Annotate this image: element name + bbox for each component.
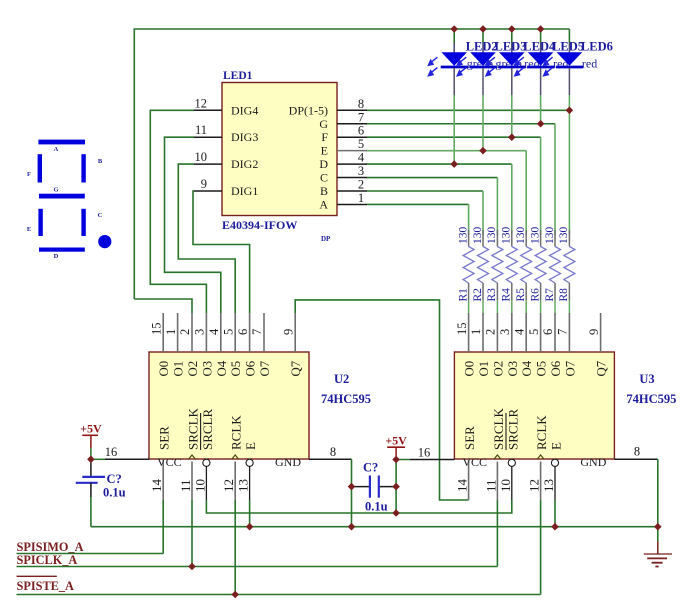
resistor R8 130	[558, 227, 575, 314]
wire: LED2 cathode column	[453, 95, 455, 164]
svg-text:16: 16	[105, 445, 118, 459]
svg-text:LED1: LED1	[223, 70, 253, 82]
wire: LED3 cathode column	[482, 95, 484, 151]
wire: U2 VCC pin 16	[91, 445, 149, 459]
wire: U2 SRCLK drop	[191, 500, 193, 567]
svg-text:B: B	[320, 184, 328, 198]
wire: U3 SRCLK drop	[496, 500, 498, 567]
wire: segment row 8 (DP)	[367, 109, 569, 111]
svg-text:1: 1	[358, 191, 364, 205]
svg-text:DIG2: DIG2	[231, 157, 258, 171]
wire: DIG1 to U2 pin 6	[193, 191, 250, 313]
U2 RCLK pin 12	[221, 415, 244, 500]
svg-text:U2: U2	[334, 372, 349, 386]
LED1 left pins DIG4-DIG1 (pins 12,11,10,9)	[194, 96, 258, 198]
svg-text:74HC595: 74HC595	[626, 392, 676, 406]
wire: bus drop to U2 pin 2	[134, 299, 192, 313]
svg-text:130: 130	[486, 227, 498, 245]
LED LED3	[456, 29, 526, 95]
svg-text:10: 10	[195, 150, 208, 164]
wire: LED anode top bus	[134, 29, 569, 299]
net label SPISTE_A (active low)	[17, 576, 541, 594]
wire: segment row 4 to R4	[367, 164, 512, 235]
U2 top pin stubs Q0-Q7	[149, 313, 303, 377]
svg-text:DIG1: DIG1	[231, 184, 258, 198]
U3 VCC pin 16 / GND pin 8 labels	[462, 455, 606, 469]
svg-text:15: 15	[455, 323, 469, 336]
svg-text:130: 130	[501, 227, 513, 244]
wire: ground bus	[91, 526, 658, 528]
svg-text:5: 5	[358, 137, 364, 151]
svg-text:12: 12	[527, 479, 542, 492]
svg-text:13: 13	[236, 479, 251, 492]
op-chip U3 74HC595	[454, 352, 676, 459]
svg-text:O0: O0	[463, 361, 477, 377]
wire: segment row 6 to R6	[367, 137, 541, 235]
svg-text:SRCLR: SRCLR	[200, 408, 215, 450]
svg-text:O0: O0	[157, 361, 171, 377]
svg-text:9: 9	[587, 329, 601, 335]
svg-text:O6: O6	[244, 360, 258, 376]
wire: DIG2 to U2 pin 5	[178, 164, 235, 313]
svg-text:GND: GND	[580, 455, 606, 469]
capacitor C? 0.1u (U3 decoupling)	[352, 461, 397, 514]
U3 RCLK pin 12	[527, 415, 550, 500]
svg-text:5: 5	[221, 329, 235, 335]
wire: DIG4 to U2 pin 3	[150, 110, 206, 313]
svg-text:O5: O5	[535, 361, 549, 377]
LED LED5	[514, 29, 584, 95]
svg-text:U3: U3	[639, 372, 654, 386]
svg-text:2: 2	[178, 329, 192, 335]
svg-text:130: 130	[558, 227, 570, 245]
svg-text:F: F	[27, 171, 31, 178]
svg-text:130: 130	[544, 227, 556, 245]
svg-text:O5: O5	[229, 361, 243, 377]
svg-text:6: 6	[541, 329, 555, 335]
svg-text:7: 7	[250, 329, 264, 335]
wire: U2 GND pin 8	[309, 445, 352, 527]
power +5V symbol (U2)	[80, 422, 102, 460]
svg-text:E: E	[321, 144, 328, 158]
svg-text:3: 3	[358, 164, 364, 178]
wire: U2 RCLK drop	[234, 500, 236, 595]
wire: LED6 cathode column	[568, 95, 570, 235]
svg-text:LED5: LED5	[552, 40, 584, 54]
svg-text:LED2: LED2	[466, 40, 498, 54]
wire: U3 GND pin 8	[614, 445, 657, 542]
svg-text:O2: O2	[186, 361, 200, 377]
svg-text:9: 9	[201, 177, 207, 191]
svg-text:R1: R1	[457, 288, 469, 302]
svg-text:E: E	[27, 226, 31, 233]
svg-text:O4: O4	[215, 360, 229, 376]
svg-text:SRCLK: SRCLK	[186, 407, 201, 450]
svg-text:O7: O7	[563, 360, 577, 376]
wire: DIG3 to U2 pin 4	[165, 137, 221, 313]
svg-text:DIG3: DIG3	[231, 130, 258, 144]
LED LED2	[427, 29, 497, 95]
svg-text:SER: SER	[462, 426, 477, 450]
svg-text:A: A	[54, 146, 59, 153]
svg-text:+5V: +5V	[80, 422, 102, 436]
svg-text:R7: R7	[544, 288, 556, 302]
U2 SRCLR pin 10 (active low)	[192, 408, 215, 500]
svg-text:GND: GND	[275, 455, 301, 469]
svg-text:E40394-IFOW: E40394-IFOW	[222, 218, 297, 232]
wire: segment row 1 to R1	[367, 204, 469, 235]
svg-text:O2: O2	[491, 361, 505, 377]
svg-text:O1: O1	[477, 361, 491, 377]
svg-text:SRCLK: SRCLK	[491, 407, 506, 450]
svg-text:7: 7	[358, 110, 364, 124]
svg-text:10: 10	[498, 479, 513, 492]
svg-text:R4: R4	[501, 288, 513, 302]
U2 SRCLK pin 11	[178, 407, 201, 500]
svg-text:E: E	[549, 442, 564, 450]
svg-text:O3: O3	[506, 361, 520, 377]
svg-text:SPISTE_A: SPISTE_A	[17, 579, 75, 593]
svg-text:R5: R5	[515, 288, 527, 302]
resistor R5 130	[515, 227, 532, 314]
U3 SRCLK pin 11	[483, 407, 506, 500]
net label SPICLK_A	[17, 553, 498, 567]
svg-text:4: 4	[207, 328, 221, 335]
svg-text:8: 8	[330, 445, 336, 459]
svg-text:F: F	[321, 130, 328, 144]
wire: U2 SER drop	[162, 500, 164, 554]
U3 SRCLR pin 10 (active low)	[498, 408, 521, 500]
svg-text:13: 13	[541, 479, 556, 492]
resistor R6 130	[529, 227, 546, 314]
svg-text:R2: R2	[472, 288, 484, 302]
svg-text:74HC595: 74HC595	[321, 392, 371, 406]
U3 E pin 13 (output enable, active low)	[541, 442, 564, 500]
svg-text:SRCLR: SRCLR	[505, 408, 520, 450]
svg-text:B: B	[98, 158, 103, 165]
svg-text:+5V: +5V	[385, 434, 407, 448]
svg-text:1: 1	[164, 329, 178, 335]
svg-text:A: A	[319, 197, 328, 211]
resistor R2 130	[472, 227, 489, 314]
wire: segment row 5 to R5	[367, 151, 526, 235]
svg-text:8: 8	[358, 97, 364, 111]
svg-text:red: red	[582, 57, 597, 71]
svg-text:D: D	[319, 157, 328, 171]
svg-text:C: C	[98, 212, 103, 219]
LED1 4-digit display component	[222, 70, 337, 243]
svg-text:9: 9	[281, 329, 295, 335]
svg-text:12: 12	[221, 479, 236, 492]
op-chip U2 74HC595	[149, 352, 371, 459]
svg-text:0.1u: 0.1u	[365, 500, 388, 514]
svg-text:12: 12	[195, 96, 208, 110]
svg-text:LED6: LED6	[581, 40, 613, 54]
power +5V symbol (U3)	[385, 434, 407, 460]
svg-text:LED3: LED3	[495, 40, 527, 54]
svg-text:C?: C?	[107, 472, 122, 486]
svg-text:130: 130	[529, 227, 541, 245]
svg-text:SPISIMO_A: SPISIMO_A	[17, 540, 84, 554]
svg-text:Q7: Q7	[289, 360, 303, 376]
wire: U2 E pin13 to ground bus	[249, 500, 251, 527]
svg-text:G: G	[319, 117, 328, 131]
7-segment display indicator symbol	[27, 140, 112, 260]
svg-text:DIG4: DIG4	[231, 103, 258, 117]
svg-text:R3: R3	[486, 288, 498, 302]
svg-text:5: 5	[527, 329, 541, 335]
svg-text:130: 130	[457, 227, 469, 245]
svg-text:C: C	[320, 171, 328, 185]
U2 SER pin 14	[149, 426, 172, 500]
ground symbol	[644, 542, 672, 567]
U3 top pin stubs Q0-Q7	[455, 313, 609, 377]
svg-text:4: 4	[512, 328, 526, 335]
svg-text:G: G	[53, 187, 58, 194]
U2 VCC pin 16 / GND pin 8 labels	[157, 455, 301, 469]
svg-text:2: 2	[484, 329, 498, 335]
svg-text:C?: C?	[363, 461, 378, 475]
wire: segment row 3 to R3	[367, 178, 497, 235]
wire: LED4 cathode column	[511, 95, 513, 137]
svg-text:Q7: Q7	[595, 360, 609, 376]
svg-text:1: 1	[469, 329, 483, 335]
svg-text:SPICLK_A: SPICLK_A	[17, 553, 78, 567]
net label SPISIMO_A	[17, 540, 164, 554]
svg-text:11: 11	[483, 479, 498, 492]
svg-text:7: 7	[556, 329, 570, 335]
wire: segment row 7 to R7	[367, 124, 555, 235]
svg-text:130: 130	[472, 227, 484, 245]
svg-text:0.1u: 0.1u	[103, 486, 126, 500]
wire: U3 E pin13 to ground bus	[554, 500, 556, 527]
wire: U2 Q7 (pin9) to U3 SER (pin14)	[295, 300, 468, 500]
svg-text:11: 11	[178, 479, 193, 492]
svg-text:14: 14	[149, 479, 164, 493]
svg-text:R8: R8	[558, 288, 570, 302]
svg-text:O4: O4	[520, 360, 534, 376]
wire: segment row 2 to R2	[367, 191, 483, 235]
LED LED4	[485, 29, 556, 95]
wire: LED5 cathode column	[540, 95, 542, 124]
svg-text:O7: O7	[258, 360, 272, 376]
svg-text:DP(1-5): DP(1-5)	[289, 103, 328, 117]
svg-text:8: 8	[634, 445, 640, 459]
LED1 right pins 8..1 (DP(1-5),G,F,E,D,C,B,A)	[289, 97, 367, 212]
LED LED6	[542, 29, 612, 95]
capacitor C? 0.1u (U2 decoupling)	[76, 459, 126, 499]
svg-text:SER: SER	[157, 426, 172, 450]
wire: U3 RCLK drop	[540, 500, 542, 595]
svg-text:D: D	[54, 253, 59, 260]
resistor R7 130	[544, 227, 561, 314]
svg-text:DP: DP	[321, 235, 331, 243]
svg-text:O1: O1	[172, 361, 186, 377]
svg-text:11: 11	[195, 123, 207, 137]
resistor R1 130	[457, 227, 474, 314]
U2 E pin 13 (output enable, active low)	[236, 442, 259, 500]
wire: C? to ground bus	[90, 497, 92, 527]
wire: +5V drop to SRCLR bus	[395, 460, 397, 514]
svg-text:4: 4	[358, 151, 365, 165]
svg-text:10: 10	[192, 479, 207, 492]
svg-text:O6: O6	[549, 360, 563, 376]
U3 SER pin 14	[455, 426, 478, 500]
svg-text:O3: O3	[200, 361, 214, 377]
svg-text:6: 6	[358, 124, 364, 138]
svg-text:3: 3	[498, 329, 512, 335]
wire: SRCLR +5V bus (U2 pin10 to U3 pin10)	[206, 500, 511, 513]
svg-text:VCC: VCC	[462, 455, 487, 469]
resistor R3 130	[486, 227, 503, 314]
svg-text:14: 14	[455, 479, 470, 493]
svg-text:6: 6	[236, 329, 250, 335]
svg-text:16: 16	[418, 446, 431, 460]
svg-text:R6: R6	[529, 288, 541, 302]
resistor R4 130	[501, 227, 518, 314]
svg-text:3: 3	[193, 329, 207, 335]
svg-text:VCC: VCC	[157, 455, 182, 469]
svg-text:RCLK: RCLK	[534, 415, 549, 450]
svg-text:RCLK: RCLK	[229, 415, 244, 450]
svg-text:15: 15	[149, 323, 163, 336]
svg-text:E: E	[243, 442, 258, 450]
svg-text:LED4: LED4	[523, 40, 556, 54]
svg-text:2: 2	[358, 178, 364, 192]
svg-text:130: 130	[515, 227, 527, 245]
wire: U3 VCC pin 16	[396, 446, 454, 460]
